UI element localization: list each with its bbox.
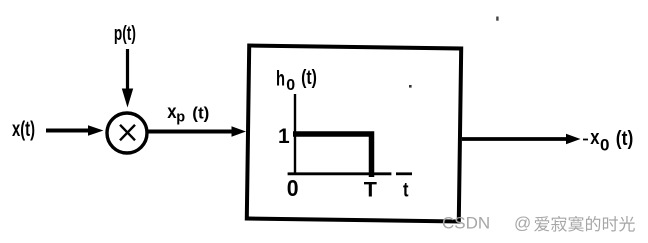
svg-text:p: p xyxy=(176,110,185,126)
wire p(t) down arrow xyxy=(126,49,129,89)
svg-text:CSDN: CSDN xyxy=(442,214,490,233)
svg-text:(t): (t) xyxy=(301,67,317,89)
svg-text:x(t): x(t) xyxy=(12,118,35,141)
svg-text:p(t): p(t) xyxy=(114,23,136,45)
svg-text:x: x xyxy=(590,127,599,149)
watermark CJK glyphs xyxy=(534,216,549,231)
svg-text:T: T xyxy=(364,178,377,202)
svg-text:h: h xyxy=(276,67,285,91)
svg-text:0: 0 xyxy=(287,175,299,201)
wire multiplier to box arrow xyxy=(148,130,233,134)
svg-text:(t): (t) xyxy=(616,128,634,150)
svg-text:(t): (t) xyxy=(192,104,209,123)
box zero-order hold xyxy=(247,46,461,222)
svg-text:@: @ xyxy=(514,214,531,233)
wire x(t) input arrow xyxy=(46,129,89,133)
wire output arrow xyxy=(462,137,567,141)
multiplier node xyxy=(107,113,147,153)
speck top xyxy=(496,17,498,21)
plot v-axis xyxy=(294,94,296,174)
svg-text:1: 1 xyxy=(278,125,290,148)
plot h-axis xyxy=(288,172,392,175)
svg-text:0: 0 xyxy=(286,77,295,94)
svg-text:t: t xyxy=(403,180,409,202)
svg-text:0: 0 xyxy=(600,136,609,155)
pulse xyxy=(293,134,372,177)
speck in box xyxy=(409,85,412,88)
